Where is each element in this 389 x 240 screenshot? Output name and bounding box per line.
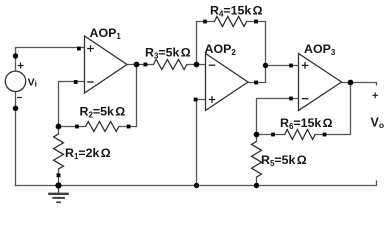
op-amp U2 AOP2 triangle bbox=[206, 54, 249, 111]
terminal dot AOP1 - lead bbox=[74, 80, 78, 84]
wire AOP1 inverting input to R1/R2 node bbox=[59, 82, 85, 127]
resistor R4 zigzag bbox=[214, 17, 246, 27]
terminal dot R3 left lead bbox=[144, 63, 148, 67]
wire R2 row leads bbox=[59, 65, 137, 127]
junction dot ground bus at R1 bbox=[55, 182, 61, 188]
ground symbol bbox=[48, 186, 69, 203]
resistor R1 zigzag (vertical) bbox=[54, 134, 64, 169]
AOP1 - input mark bbox=[87, 81, 94, 83]
wire AOP1 output row to R3 and AOP2 - input bbox=[127, 64, 206, 66]
wire AOP3 + input row bbox=[266, 65, 299, 67]
junction dot source bottom bbox=[13, 106, 18, 111]
terminal dot AOP3 + lead bbox=[289, 64, 293, 68]
terminal dot AOP1 + lead bbox=[77, 47, 81, 51]
junction dot source top bbox=[13, 53, 18, 58]
junction dot AOP2 - input node bbox=[194, 62, 200, 68]
terminal dot R2 left lead bbox=[75, 125, 79, 129]
resistor R6 zigzag (feedback of AOP3) bbox=[285, 130, 315, 140]
AOP1 + input mark bbox=[87, 45, 94, 52]
AOP3 - input mark bbox=[302, 98, 309, 100]
svg-text:R4=15kΩ: R4=15kΩ bbox=[210, 4, 263, 19]
source + polarity mark bbox=[18, 63, 24, 69]
source - polarity mark bbox=[17, 97, 22, 99]
resistor R2 zigzag bbox=[86, 122, 120, 132]
svg-text:R6=15kΩ: R6=15kΩ bbox=[280, 116, 333, 131]
svg-text:R1=2kΩ: R1=2kΩ bbox=[65, 146, 111, 161]
junction dot AOP3 + branch bbox=[263, 63, 268, 68]
svg-text:R3=5kΩ: R3=5kΩ bbox=[145, 46, 191, 61]
terminal dot AOP2 output lead bbox=[254, 81, 258, 85]
terminal dot R4 right lead bbox=[254, 20, 258, 24]
wire AOP3 - input down to R5/R6 node bbox=[257, 99, 299, 135]
resistor R5 zigzag (vertical to ground) bbox=[252, 141, 262, 177]
voltage source Vi circle bbox=[5, 71, 25, 91]
junction dot bus at R5 bbox=[254, 183, 259, 188]
junction dot AOP3 output bbox=[348, 80, 354, 86]
resistor R3 zigzag bbox=[153, 60, 187, 70]
wire R1 leads bbox=[58, 127, 60, 186]
wire AOP2 + input to ground bus bbox=[197, 100, 206, 186]
op-amp U3 AOP3 triangle bbox=[299, 54, 342, 111]
AOP2 - input mark bbox=[209, 64, 216, 66]
wire R6 leads bbox=[256, 135, 258, 186]
wire AOP2 output bbox=[248, 82, 266, 84]
junction dot R1/R2 node bbox=[56, 124, 62, 130]
wire R5 feedback row of AOP3 bbox=[257, 82, 351, 135]
AOP2 + input mark bbox=[209, 96, 216, 103]
terminal dot AOP2 + lead bbox=[194, 98, 198, 102]
terminal dot R4 left lead bbox=[203, 20, 207, 24]
svg-text:R2=5kΩ: R2=5kΩ bbox=[80, 105, 126, 120]
junction dot R5/R6 node bbox=[254, 132, 260, 138]
terminal dot R1 bottom lead bbox=[57, 173, 61, 177]
terminal dot AOP3 - lead bbox=[289, 97, 293, 101]
junction dot bus at AOP2 + column bbox=[194, 183, 199, 188]
wire top from source to AOP1 + input bbox=[16, 48, 85, 72]
op-amp U1 AOP1 triangle bbox=[85, 36, 128, 93]
wire AOP3 output to terminal bbox=[342, 83, 377, 85]
AOP3 + input mark bbox=[302, 62, 309, 69]
svg-text:R5=5kΩ: R5=5kΩ bbox=[261, 153, 307, 168]
output + polarity mark bbox=[372, 93, 378, 99]
terminal dot R2 right lead bbox=[127, 125, 131, 129]
wire source bottom to ground bus bbox=[15, 92, 17, 186]
terminal dot R6 right lead bbox=[323, 133, 327, 137]
wire R4 feedback loop of AOP2 bbox=[197, 22, 266, 83]
wire ground bus bbox=[16, 181, 377, 186]
junction dot AOP1 output bbox=[134, 62, 140, 68]
terminal dot R6 left lead bbox=[271, 133, 275, 137]
